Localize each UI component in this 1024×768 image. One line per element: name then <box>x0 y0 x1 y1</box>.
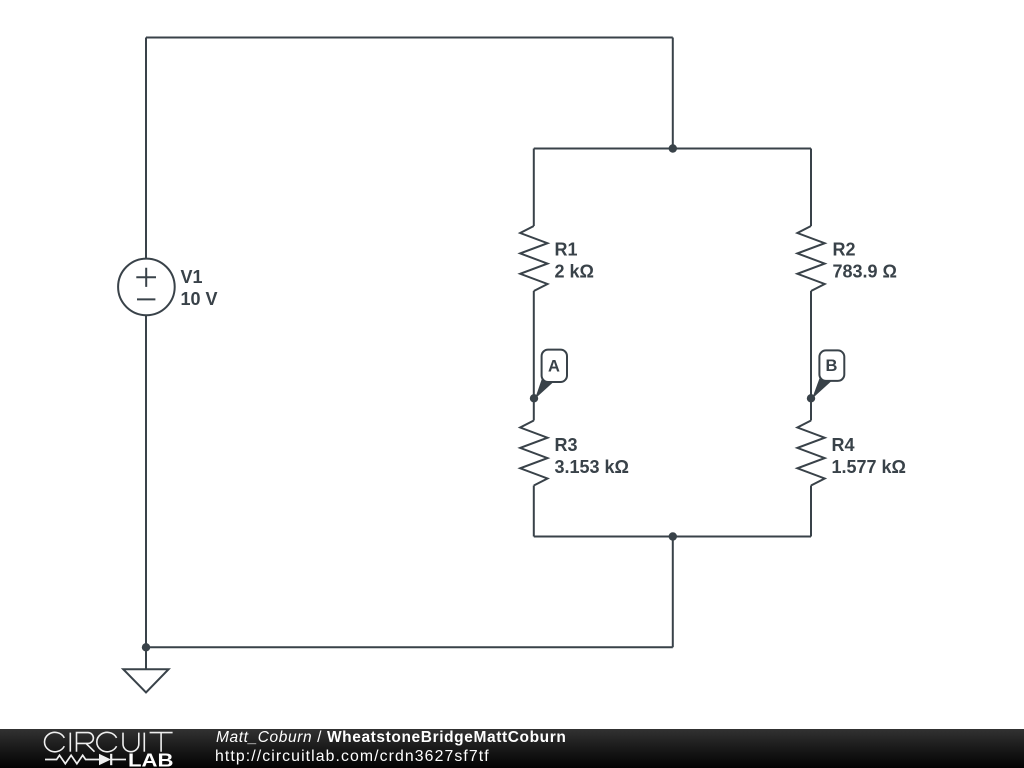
T <box>150 733 173 752</box>
svg-text:LAB: LAB <box>128 750 174 768</box>
svg-text:R3: R3 <box>555 435 578 455</box>
wire bottom horizontal <box>146 646 673 648</box>
svg-text:R2: R2 <box>833 240 856 260</box>
C <box>97 732 117 751</box>
node B box <box>819 350 844 381</box>
ground symbol <box>123 669 168 692</box>
U <box>123 733 139 752</box>
logo resistor-diode glyph <box>45 754 126 765</box>
wire top horizontal <box>146 37 673 39</box>
voltage source V1 circle <box>118 259 175 316</box>
node A box <box>542 350 567 382</box>
svg-text:R4: R4 <box>832 435 855 455</box>
svg-text:R1: R1 <box>555 240 578 260</box>
wire bridge top <box>534 148 811 150</box>
svg-text:1.577 kΩ: 1.577 kΩ <box>832 457 907 477</box>
wire left vertical top (to V1) <box>145 38 147 259</box>
svg-text:10 V: 10 V <box>181 289 218 309</box>
V1 plus sign <box>136 268 156 287</box>
wire right branch lower lead <box>810 486 812 537</box>
footer bar <box>0 729 1024 768</box>
wire bridge bottom <box>534 536 811 538</box>
wire left branch upper lead <box>533 149 535 227</box>
logo diode triangle <box>99 754 111 765</box>
svg-text:A: A <box>548 358 560 376</box>
wire bottom node vertical <box>672 537 674 648</box>
wire left branch lower lead <box>533 486 535 537</box>
svg-text:V1: V1 <box>181 267 203 287</box>
V1 minus sign <box>137 298 155 300</box>
node B tail <box>812 378 831 399</box>
node junction dot top <box>669 144 677 152</box>
node B dot <box>807 394 815 402</box>
logo CIRCUIT word <box>44 732 172 751</box>
node junction dot left <box>142 643 150 651</box>
node A dot <box>530 394 538 402</box>
svg-text:783.9 Ω: 783.9 Ω <box>833 262 897 282</box>
resistor R4 <box>797 421 824 486</box>
resistor R1 <box>520 226 547 291</box>
wire left vertical bottom (V1 to ground junction) <box>145 315 147 669</box>
svg-text:B: B <box>826 357 838 375</box>
wire right branch middle (R2 to R4 through node B) <box>810 291 812 421</box>
wire left branch middle (R1 to R3 through node A) <box>533 291 535 421</box>
svg-text:2 kΩ: 2 kΩ <box>555 262 594 282</box>
C <box>44 732 64 751</box>
wire top node vertical <box>672 38 674 149</box>
R <box>77 733 95 752</box>
footer line 2 <box>215 749 490 764</box>
svg-text:3.153 kΩ: 3.153 kΩ <box>555 457 630 477</box>
footer line 1 <box>216 730 566 745</box>
I <box>69 733 71 752</box>
resistor R3 <box>520 421 547 486</box>
I <box>143 733 145 752</box>
node junction dot bottom <box>669 532 677 540</box>
node A tail <box>535 377 554 399</box>
wire right branch upper lead <box>810 149 812 227</box>
resistor R2 <box>797 226 824 291</box>
